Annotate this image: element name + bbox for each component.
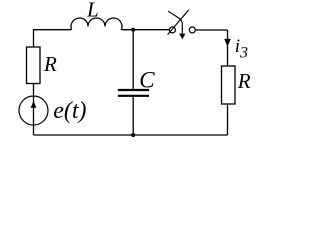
wire capacitor branch lower — [132, 97, 134, 135]
current i3 arrowhead down — [224, 39, 231, 47]
wire left branch lower — [33, 84, 35, 136]
resistor R2 box right — [222, 66, 236, 104]
inductor L — [71, 18, 122, 30]
svg-text:e(t): e(t) — [53, 98, 86, 124]
svg-text:3: 3 — [239, 44, 248, 61]
junction dot bottom of C — [131, 133, 135, 137]
switch blade — [168, 10, 189, 35]
source e(t) circle — [19, 96, 48, 125]
wire inductor to switch — [122, 29, 169, 31]
switch closing arrow curve — [168, 11, 182, 34]
source arrowhead up — [31, 101, 37, 108]
wire capacitor branch upper — [132, 30, 134, 89]
svg-text:R: R — [237, 69, 251, 93]
switch contact circle right — [189, 27, 195, 33]
source arrow line — [33, 96, 35, 125]
wire bottom horizontal — [34, 134, 228, 136]
svg-text:R: R — [43, 52, 57, 76]
switch arrowhead down — [179, 34, 185, 40]
wire right branch lower — [227, 104, 229, 135]
svg-text:C: C — [139, 68, 155, 93]
svg-text:L: L — [86, 0, 99, 21]
switch contact circle left — [169, 27, 175, 33]
junction dot top of C — [131, 28, 135, 32]
wire top-left corner — [34, 30, 72, 47]
resistor R1 box left — [27, 47, 41, 84]
capacitor C plates — [118, 90, 149, 96]
wire switch to right corner — [195, 29, 227, 31]
wire right branch upper — [227, 30, 229, 66]
